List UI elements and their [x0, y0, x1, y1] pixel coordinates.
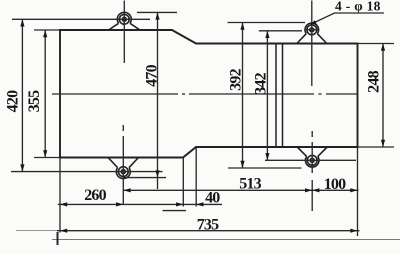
svg-text:40: 40 [205, 190, 220, 207]
svg-text:513: 513 [239, 175, 261, 192]
svg-text:100: 100 [324, 176, 346, 193]
svg-text:248: 248 [366, 70, 383, 92]
svg-text:420: 420 [5, 90, 22, 112]
svg-text:260: 260 [84, 187, 106, 204]
svg-text:355: 355 [26, 90, 43, 112]
svg-text:342: 342 [253, 72, 270, 94]
svg-text:470: 470 [143, 64, 160, 86]
svg-text:4 - φ 18: 4 - φ 18 [335, 0, 381, 14]
svg-text:735: 735 [197, 216, 219, 233]
svg-text:392: 392 [228, 68, 245, 90]
